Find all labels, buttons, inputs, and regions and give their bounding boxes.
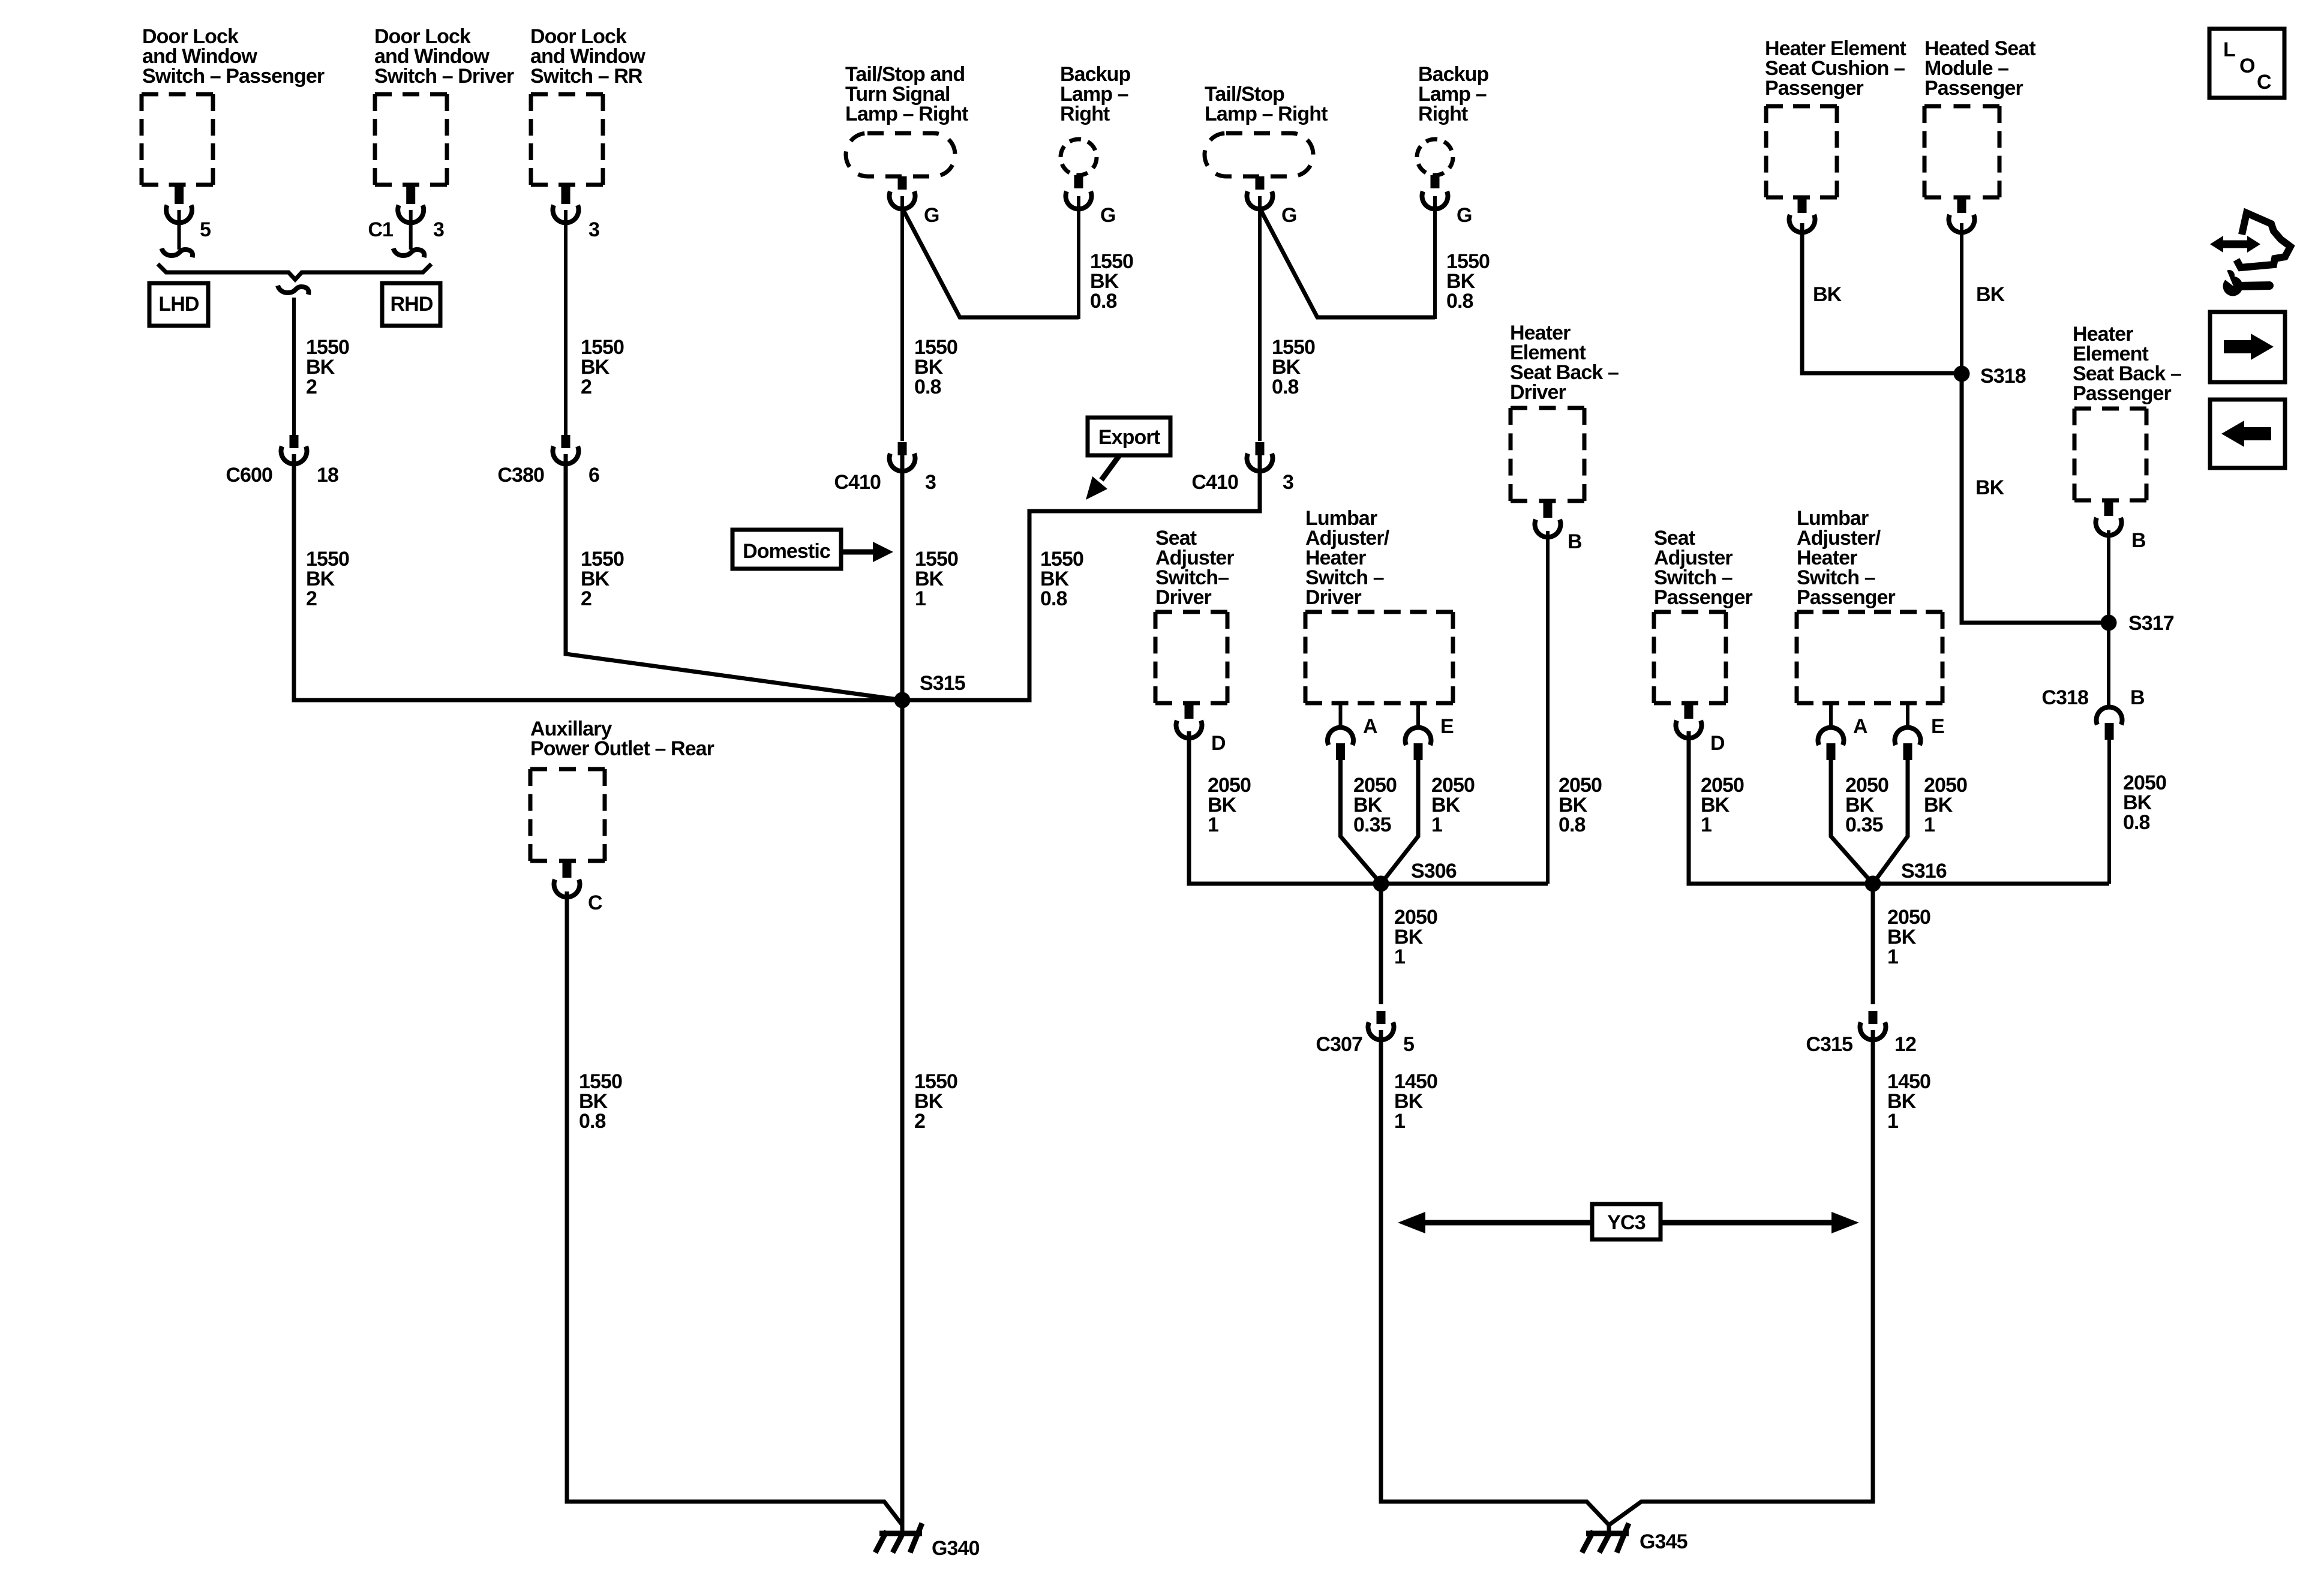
- wire label 1550 BK 0.8 (backup lamp 1): [1090, 250, 1133, 313]
- Export option box with arrow: [1086, 418, 1170, 500]
- svg-text:E: E: [1931, 715, 1944, 738]
- wire label 1550 BK 0.8 (aux outlet wire): [579, 1070, 622, 1133]
- wire label 1550 BK 2 (brace wire): [306, 336, 349, 398]
- wire label 1550 BK 2 (C600 wire): [306, 548, 349, 610]
- wire label 2050 BK 0.35 (passenger lumbar A): [1845, 774, 1888, 836]
- svg-text:C1: C1: [368, 218, 393, 241]
- component box: Seat Adjuster Switch - Driver: [1155, 527, 1234, 703]
- next page arrow box (right): [2210, 312, 2285, 382]
- svg-text:Right: Right: [1060, 103, 1110, 125]
- wire C318 down to S316 row: [2107, 738, 2111, 884]
- wire S318 down and right to S317: [1962, 374, 2109, 623]
- component box: Heater Element Seat Back - Passenger: [2073, 323, 2181, 500]
- svg-text:S316: S316: [1901, 860, 1947, 882]
- wire backup lamp 2 down to join: [1433, 196, 1437, 319]
- svg-text:D: D: [1211, 732, 1226, 755]
- svg-text:G: G: [924, 204, 939, 227]
- wire pin E diagonal to S316: [1873, 758, 1908, 884]
- connector C380 pin 6: [497, 435, 599, 487]
- pin 3 (C1) of driver door lock switch: [368, 185, 444, 250]
- wire C380 down and diagonal to S315: [566, 454, 902, 700]
- wire backup lamp 1 down to join: [1077, 196, 1080, 319]
- svg-text:12: 12: [1894, 1033, 1916, 1056]
- wire label 2050 BK 1 (below S316): [1887, 906, 1930, 968]
- component: Tail/Stop Lamp - Right (export): [1205, 83, 1328, 176]
- svg-text:C410: C410: [1191, 471, 1238, 494]
- svg-text:0.8: 0.8: [914, 376, 941, 398]
- wire pin A diagonal to S306: [1341, 758, 1382, 884]
- component box: Heater Element Seat Back - Driver: [1510, 322, 1619, 501]
- pin of heated seat module: [1948, 197, 1974, 232]
- svg-text:LHD: LHD: [158, 293, 199, 316]
- svg-text:1: 1: [1208, 813, 1218, 836]
- ground G345: [1582, 1523, 1688, 1553]
- svg-text:BK: BK: [1975, 476, 2005, 499]
- wire module down to S318: [1960, 223, 1963, 373]
- svg-text:G: G: [1100, 204, 1116, 227]
- pin D of passenger seat adjuster switch: [1676, 703, 1725, 755]
- svg-text:3: 3: [925, 471, 936, 494]
- wire from RR switch pin down to C380: [564, 210, 568, 438]
- brace merging passenger and driver wires (LHD/RHD option): [158, 264, 431, 280]
- svg-text:B: B: [2130, 686, 2145, 709]
- wire pin D down and right to S306: [1189, 731, 1548, 884]
- svg-text:Switch – RR: Switch – RR: [530, 65, 642, 88]
- pin A of driver lumbar switch: [1328, 703, 1377, 760]
- wire C410 export down, left and down to S315 row: [902, 454, 1260, 700]
- svg-text:Lamp – Right: Lamp – Right: [1205, 103, 1328, 125]
- svg-text:Switch – Passenger: Switch – Passenger: [142, 65, 325, 88]
- wire label BK (module wire): [1976, 283, 2005, 306]
- wire label 1550 BK 2 (RR wire): [581, 336, 624, 398]
- svg-text:Passenger: Passenger: [1654, 586, 1753, 609]
- svg-text:S315: S315: [920, 672, 965, 695]
- svg-text:E: E: [1440, 715, 1454, 738]
- svg-text:2: 2: [306, 587, 317, 610]
- svg-text:Right: Right: [1418, 103, 1468, 125]
- connector C315 pin 12: [1806, 1011, 1916, 1056]
- svg-text:Passenger: Passenger: [2073, 382, 2172, 405]
- svg-text:L: L: [2223, 38, 2235, 61]
- svg-text:0.8: 0.8: [2123, 811, 2150, 834]
- svg-text:A: A: [1853, 715, 1867, 738]
- junction S318: [1954, 365, 2026, 388]
- component box: Heated Seat Module - Passenger: [1924, 37, 2035, 197]
- svg-text:0.8: 0.8: [1559, 813, 1586, 836]
- diagonal wire joining tail lamp 2 to backup lamp 2: [1260, 208, 1435, 317]
- svg-text:0.35: 0.35: [1353, 813, 1391, 836]
- connector C410 pin 3 (domestic): [834, 442, 936, 494]
- component: Backup Lamp - Right (second): [1417, 63, 1489, 175]
- svg-text:S306: S306: [1411, 860, 1457, 882]
- pin G of backup lamp 1: [1065, 175, 1115, 227]
- pin E of passenger lumbar switch: [1895, 703, 1945, 760]
- component box: Auxillary Power Outlet - Rear: [530, 718, 714, 861]
- pin E of driver lumbar switch: [1406, 703, 1454, 760]
- wire S317 down to C318: [2107, 623, 2110, 707]
- wire label 1450 BK 1 (below C307): [1394, 1070, 1437, 1133]
- svg-text:2: 2: [306, 376, 317, 398]
- wire pin B down to S317: [2107, 530, 2110, 623]
- svg-text:RHD: RHD: [391, 293, 433, 316]
- wire break squiggle at passenger pin: [162, 248, 193, 257]
- connector C318 pin B: [2041, 686, 2145, 740]
- ground G340: [875, 1523, 980, 1560]
- svg-text:C380: C380: [497, 464, 544, 487]
- wire from aux outlet down and right to G340: [567, 891, 902, 1525]
- svg-text:D: D: [1710, 732, 1725, 755]
- svg-text:1: 1: [1701, 813, 1712, 836]
- wire label 1550 BK 0.8 (tail lamp 1 wire): [914, 336, 957, 398]
- svg-text:C: C: [2257, 71, 2271, 94]
- svg-text:Driver: Driver: [1305, 586, 1362, 609]
- svg-text:B: B: [1568, 530, 1582, 553]
- wire label 1550 BK 2 (main ground wire): [914, 1070, 957, 1133]
- wire label BK (cushion wire): [1813, 283, 1842, 306]
- svg-text:0.8: 0.8: [1040, 587, 1067, 610]
- svg-text:2: 2: [581, 376, 591, 398]
- svg-text:O: O: [2239, 55, 2255, 77]
- svg-text:G: G: [1281, 204, 1297, 227]
- svg-text:G345: G345: [1640, 1530, 1688, 1553]
- svg-text:S317: S317: [2128, 612, 2174, 635]
- pin 3 of RR door lock switch: [553, 185, 600, 241]
- svg-text:G340: G340: [932, 1537, 980, 1560]
- wire label 2050 BK 1 (driver seat adjuster): [1208, 774, 1251, 836]
- wire label 2050 BK 1 (lumbar E): [1431, 774, 1475, 836]
- pin D of driver seat adjuster switch: [1176, 703, 1226, 755]
- svg-text:Driver: Driver: [1155, 586, 1212, 609]
- wire label 2050 BK 0.8 (C318 wire): [2123, 772, 2166, 834]
- YC3 harness span arrow: [1398, 1204, 1859, 1239]
- svg-text:A: A: [1363, 715, 1377, 738]
- wire break squiggle below brace: [278, 286, 309, 295]
- previous page arrow box (left): [2210, 400, 2285, 468]
- svg-text:C600: C600: [226, 464, 272, 487]
- svg-text:BK: BK: [1976, 283, 2005, 306]
- svg-text:G: G: [1457, 204, 1472, 227]
- svg-text:C318: C318: [2041, 686, 2088, 709]
- wire label 1450 BK 1 (below C315): [1887, 1070, 1930, 1133]
- wire label 2050 BK 1 (below S306): [1394, 906, 1437, 968]
- svg-text:B: B: [2131, 529, 2146, 552]
- svg-text:Power Outlet – Rear: Power Outlet – Rear: [530, 737, 714, 760]
- junction S315: [894, 672, 965, 709]
- svg-text:Passenger: Passenger: [1924, 77, 2023, 100]
- pin 5 of passenger door lock switch: [166, 185, 211, 250]
- svg-text:3: 3: [588, 218, 599, 241]
- pin of heater element seat cushion: [1789, 197, 1815, 232]
- svg-text:0.8: 0.8: [1272, 376, 1299, 398]
- svg-text:18: 18: [317, 464, 338, 487]
- wire label BK (S318 to S317): [1975, 476, 2005, 499]
- wire S306 down to C307: [1379, 884, 1383, 1004]
- svg-text:Driver: Driver: [1510, 381, 1566, 404]
- svg-text:1: 1: [1431, 813, 1442, 836]
- svg-text:Domestic: Domestic: [743, 540, 830, 563]
- svg-text:5: 5: [1403, 1033, 1414, 1056]
- svg-text:6: 6: [588, 464, 599, 487]
- main ground wire S315 down to G340: [900, 700, 905, 1533]
- svg-text:1: 1: [1887, 945, 1898, 968]
- pin A of passenger lumbar switch: [1818, 703, 1868, 760]
- wire S316 down to C315: [1871, 884, 1875, 1004]
- component: Tail/Stop and Turn Signal Lamp - Right: [845, 63, 968, 176]
- wire C315 down and left to G345: [1609, 1030, 1873, 1525]
- pin G of tail/stop lamp 2: [1247, 176, 1297, 227]
- svg-text:C: C: [588, 891, 602, 914]
- wire label 1550 BK 0.8 (tail lamp 2 wire): [1272, 336, 1315, 398]
- component: Backup Lamp - Right (first): [1060, 63, 1131, 175]
- svg-text:0.8: 0.8: [579, 1110, 606, 1133]
- pin B of heater element seat back driver: [1535, 501, 1583, 553]
- component box: Door Lock and Window Switch - Passenger: [142, 25, 325, 185]
- junction S316: [1865, 860, 1947, 892]
- wire label 2050 BK 1 (passenger lumbar E): [1924, 774, 1967, 836]
- svg-text:2: 2: [581, 587, 591, 610]
- wire pin B down to S306 row: [1546, 531, 1550, 884]
- svg-text:Export: Export: [1098, 426, 1160, 449]
- component box: Door Lock and Window Switch - Driver: [374, 25, 514, 185]
- svg-text:C410: C410: [834, 471, 881, 494]
- wire pin D down and right to S316: [1689, 731, 2109, 884]
- wire label 1550 BK 1 (below C410): [915, 548, 958, 610]
- svg-text:1: 1: [1394, 945, 1405, 968]
- wire label 2050 BK 0.8 (seat back driver): [1559, 774, 1602, 836]
- component box: Lumbar Adjuster/Heater Switch - Driver: [1305, 507, 1453, 703]
- svg-text:C307: C307: [1316, 1033, 1362, 1056]
- wire label 1550 BK 2 (below C380): [581, 548, 624, 610]
- wire pin E diagonal to S306: [1381, 758, 1418, 884]
- component box: Door Lock and Window Switch - RR: [530, 25, 645, 185]
- svg-text:Lamp – Right: Lamp – Right: [845, 103, 968, 125]
- LOC legend box: [2209, 29, 2284, 98]
- wire label 1550 BK 0.8 (backup lamp 2): [1446, 250, 1490, 313]
- svg-text:Passenger: Passenger: [1765, 77, 1864, 100]
- svg-text:0.8: 0.8: [1090, 290, 1117, 313]
- svg-text:2: 2: [914, 1110, 925, 1133]
- svg-text:3: 3: [1283, 471, 1293, 494]
- component box: Heater Element Seat Cushion - Passenger: [1765, 37, 1906, 197]
- svg-text:3: 3: [433, 218, 444, 241]
- svg-text:S318: S318: [1980, 365, 2026, 388]
- connector C307 pin 5: [1316, 1011, 1414, 1056]
- junction S306: [1373, 860, 1457, 892]
- wire C410 down to S315: [900, 454, 905, 700]
- wire label 1550 BK 0.8 (export wire): [1040, 548, 1083, 610]
- diagonal wire joining tail lamp 1 to backup lamp 1: [902, 208, 1079, 317]
- connector C600 pin 18: [226, 435, 338, 487]
- wire cushion down and right to S318: [1802, 223, 1962, 373]
- RHD option box: [382, 283, 440, 326]
- wire pin G down to C410 export: [1258, 196, 1262, 441]
- LHD option box: [149, 283, 208, 326]
- svg-text:BK: BK: [1813, 283, 1842, 306]
- svg-text:5: 5: [200, 218, 211, 241]
- svg-text:1: 1: [915, 587, 926, 610]
- svg-text:0.35: 0.35: [1845, 813, 1883, 836]
- pin C of auxillary power outlet: [554, 861, 602, 914]
- svg-text:Passenger: Passenger: [1797, 586, 1896, 609]
- svg-text:1: 1: [1887, 1110, 1898, 1133]
- pin B of heater element seat back passenger: [2096, 500, 2146, 552]
- junction S317: [2101, 612, 2174, 635]
- svg-text:Switch – Driver: Switch – Driver: [374, 65, 514, 88]
- wire C307 down and right to G345: [1381, 1030, 1609, 1525]
- adjustable component icon (outline with double arrow and wrench): [2210, 213, 2290, 296]
- wire C600 down then right to S315: [294, 454, 902, 700]
- Domestic option box with arrow: [732, 530, 893, 569]
- svg-text:1: 1: [1924, 813, 1935, 836]
- pin G of tail/stop lamp 1: [890, 176, 939, 227]
- svg-text:C315: C315: [1806, 1033, 1852, 1056]
- svg-text:1: 1: [1394, 1110, 1405, 1133]
- svg-text:YC3: YC3: [1607, 1211, 1645, 1234]
- wire pin A diagonal to S316: [1831, 758, 1873, 884]
- pin G of backup lamp 2: [1422, 175, 1472, 227]
- component box: Lumbar Adjuster/Heater Switch - Passenger: [1797, 507, 1942, 703]
- wire from brace down to C600: [292, 298, 296, 436]
- wire break squiggle at driver pin: [394, 248, 425, 257]
- wire label 2050 BK 0.35 (lumbar A): [1353, 774, 1397, 836]
- connector C410 pin 3 (export): [1191, 442, 1293, 494]
- wire label 2050 BK 1 (passenger seat adjuster): [1701, 774, 1744, 836]
- wire pin G down to C410: [900, 196, 904, 441]
- svg-text:0.8: 0.8: [1446, 290, 1473, 313]
- component box: Seat Adjuster Switch - Passenger: [1654, 527, 1753, 703]
